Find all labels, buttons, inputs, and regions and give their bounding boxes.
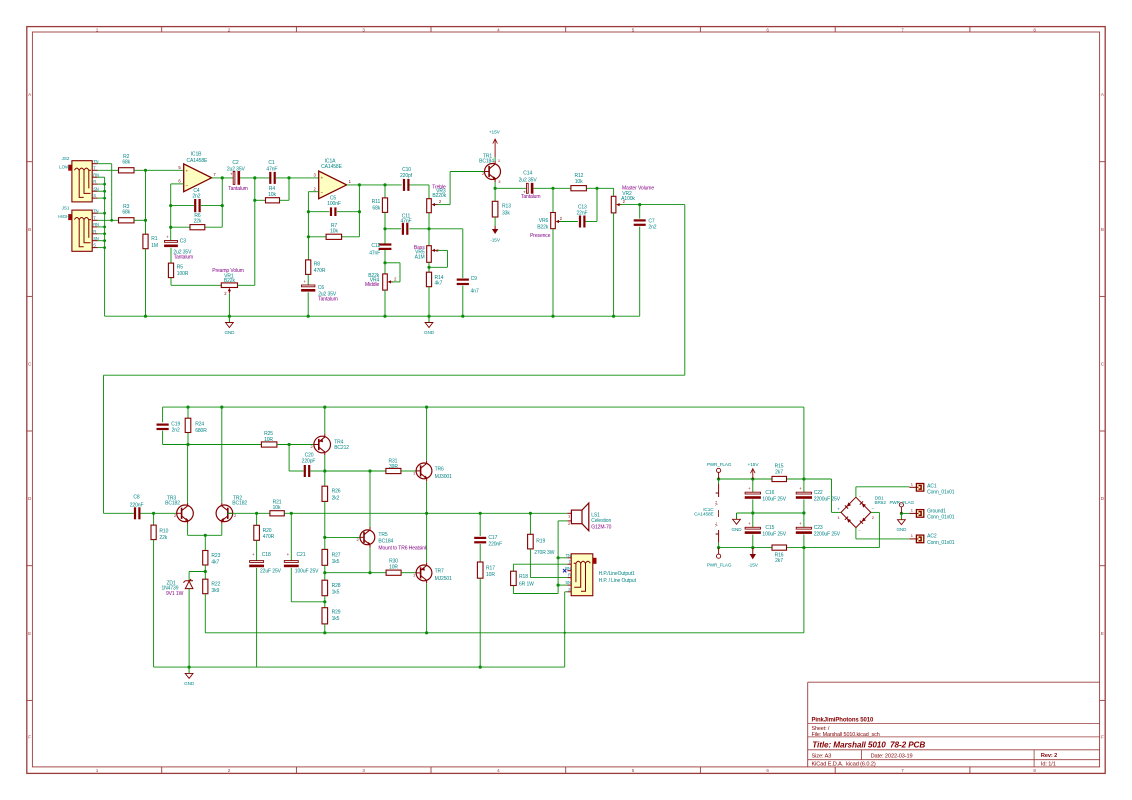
wire IC1A inverting vertical: [307, 192, 309, 261]
svg-text:Middle: Middle: [365, 282, 379, 288]
wire TR1 emitter to C14: [495, 187, 526, 189]
svg-text:+15V: +15V: [489, 130, 501, 136]
capacitor C5: [330, 207, 332, 216]
wire R30 row: [325, 572, 386, 574]
node SN branch: [557, 584, 560, 587]
svg-text:Ground1: Ground1: [927, 508, 946, 514]
input jack JS2: [72, 161, 92, 202]
svg-text:Conn_01x01: Conn_01x01: [927, 540, 955, 546]
resistor R24: [187, 407, 189, 418]
node IC1A output: [358, 183, 361, 186]
node ZD1 row: [204, 570, 207, 573]
svg-text:R24: R24: [195, 421, 204, 427]
svg-text:+: +: [748, 486, 751, 491]
ground symbol under VR1: [228, 316, 230, 322]
svg-text:CA1458E: CA1458E: [694, 511, 713, 516]
svg-text:1k5: 1k5: [332, 559, 340, 565]
border column ticks and numbers: [161, 27, 163, 32]
svg-text:C17: C17: [488, 535, 497, 541]
svg-text:TR6: TR6: [435, 466, 444, 472]
wire VR1 wiper to ground rail: [228, 294, 230, 316]
wire R27 to R30 row: [324, 565, 326, 580]
input jack JS1: [72, 210, 92, 251]
wire IC1B output: [212, 177, 233, 179]
wire C8 to TR3: [141, 512, 177, 514]
wire R30 to TR7 base: [401, 572, 416, 574]
capacitor C22: [803, 479, 805, 492]
svg-text:100uF 25V: 100uF 25V: [295, 568, 319, 574]
svg-text:39R: 39R: [389, 464, 398, 470]
resistor R4 with connectors: [254, 178, 256, 200]
wire C4 row: [171, 205, 194, 207]
wire TR2 collector to rail: [221, 407, 223, 503]
svg-text:TN: TN: [93, 159, 98, 164]
svg-text:+: +: [320, 177, 323, 182]
node PWR_FLAG top: [717, 477, 720, 480]
wire C1 to IC1A pin3: [276, 177, 319, 179]
svg-text:GND: GND: [224, 330, 235, 335]
node TR7 negative rail: [425, 631, 428, 634]
wire bridge AC bottom to AC2: [855, 528, 857, 539]
border row ticks and letters: [27, 161, 33, 163]
svg-text:Presence: Presence: [530, 233, 551, 239]
wire TN row: [558, 557, 567, 559]
capacitor C23: [803, 513, 805, 528]
op-amp IC1B: [184, 164, 212, 192]
svg-text:KiCad E.D.A. kicad (6.0.2): KiCad E.D.A. kicad (6.0.2): [812, 761, 876, 767]
title block outline: [808, 682, 1100, 767]
resistor R11: [384, 185, 386, 198]
svg-text:10k: 10k: [330, 228, 338, 234]
svg-text:100nF: 100nF: [327, 201, 341, 207]
node R19 top: [529, 512, 532, 515]
svg-text:22k: 22k: [194, 219, 202, 225]
node JS1 T junction: [110, 219, 113, 222]
svg-text:E: E: [28, 631, 31, 636]
wire TR5 base: [325, 536, 360, 538]
wire C11 row to C9: [429, 228, 463, 230]
node R6 left: [169, 226, 172, 229]
node TR6 rail: [425, 406, 428, 409]
wire TR4 bottom: [324, 455, 326, 471]
svg-text:+: +: [185, 170, 188, 175]
node R23 top: [204, 534, 207, 537]
svg-text:R: R: [568, 573, 571, 578]
svg-text:−: −: [185, 184, 188, 189]
svg-text:PWR_FLAG: PWR_FLAG: [889, 500, 914, 505]
node VR6 ground: [551, 315, 554, 318]
capacitor C20: [304, 465, 306, 477]
svg-text:BC212: BC212: [334, 445, 349, 451]
svg-text:JS2: JS2: [62, 156, 70, 161]
resistor R29: [322, 608, 328, 624]
svg-text:470R: 470R: [263, 534, 275, 540]
wire R2-R3 tie vertical: [145, 170, 147, 220]
svg-text:270R 3W: 270R 3W: [534, 550, 555, 556]
svg-text:68k: 68k: [122, 160, 130, 166]
node VR4 top loop junction: [383, 261, 386, 264]
svg-text:−: −: [872, 506, 875, 511]
svg-text:2n2: 2n2: [192, 194, 200, 200]
connector AC2 Conn_01x01: [916, 535, 923, 543]
wire C11 row: [385, 228, 401, 230]
capacitor C12: [384, 229, 386, 244]
wire TR3 collector row to R25: [163, 444, 262, 446]
wire TR3 emitter: [187, 524, 189, 536]
svg-text:B22k: B22k: [537, 224, 549, 230]
resistor R25: [261, 442, 277, 447]
svg-text:GND: GND: [896, 527, 907, 532]
svg-text:+: +: [799, 521, 802, 526]
wire negative rail riser: [803, 548, 805, 633]
svg-text:File: Marshall 5010.kicad_sch: File: Marshall 5010.kicad_sch: [812, 732, 880, 738]
svg-text:TN: TN: [93, 208, 98, 213]
node PWR_FLAG bottom: [717, 546, 720, 549]
svg-text:C23: C23: [814, 525, 823, 531]
PWR_FLAG bottom symbol: [718, 548, 720, 555]
wire R22 to negative rail: [204, 594, 206, 633]
wire VR6 bottom to rail: [552, 229, 554, 317]
svg-text:+: +: [837, 506, 840, 511]
svg-text:2k2: 2k2: [332, 496, 340, 502]
svg-text:1: 1: [96, 768, 99, 773]
wire R31 to TR6 base: [401, 470, 416, 472]
svg-text:10k: 10k: [273, 505, 281, 511]
transistor TR1 BC184: [485, 164, 501, 180]
svg-text:AC2: AC2: [927, 534, 937, 540]
speaker LS1 Celestion: [571, 510, 582, 524]
node C21 top: [290, 512, 293, 515]
power symbol +15V at TR1: [494, 157, 496, 161]
svg-text:47nF: 47nF: [401, 219, 412, 225]
svg-text:8: 8: [1033, 768, 1036, 773]
wire C13 right riser: [586, 221, 598, 223]
svg-text:C9: C9: [471, 276, 478, 282]
svg-text:220nF: 220nF: [130, 502, 144, 508]
connector AC1 Conn_01x01: [916, 484, 923, 492]
node C11 left: [383, 227, 386, 230]
svg-text:R1: R1: [151, 236, 158, 242]
svg-text:C21: C21: [297, 552, 306, 558]
ground rail power amp: [154, 666, 565, 668]
svg-text:BR62: BR62: [875, 500, 887, 505]
svg-text:F: F: [1101, 735, 1104, 740]
svg-text:VR6: VR6: [539, 218, 549, 224]
node VR5 bottom junction: [427, 266, 430, 269]
svg-text:CA1458E: CA1458E: [321, 164, 342, 170]
power symbol -15V under R13: [494, 217, 496, 226]
wire R12 to VR2: [586, 187, 613, 189]
wire VR4 wiper loop: [392, 281, 400, 283]
negative rail: [205, 632, 804, 634]
op-amp IC1C power unit: [718, 479, 720, 484]
svg-text:F: F: [28, 735, 31, 740]
resistor R28: [322, 580, 328, 596]
svg-text:+15V: +15V: [748, 462, 760, 468]
node R4 left to VR1 riser: [253, 199, 256, 202]
svg-text:Sheet: /: Sheet: /: [812, 726, 830, 732]
node C4 right: [221, 204, 224, 207]
capacitor C15: [752, 513, 754, 528]
node C5 right: [358, 210, 361, 213]
wire R14 to ground rail: [428, 287, 430, 317]
capacitor C21: [290, 513, 292, 561]
svg-text:10R: 10R: [486, 572, 495, 578]
capacitor C4: [194, 199, 196, 212]
wire C12 to VR4: [384, 250, 386, 274]
node tone stack mid junction: [427, 227, 430, 230]
wire R23 to R22: [204, 565, 206, 579]
wire R5 to VR1: [170, 278, 172, 286]
node R1 top junction: [144, 219, 147, 222]
wire VR3 wiper to TR1 base: [438, 204, 451, 206]
wire C14 to R12: [533, 187, 571, 189]
zener diode ZD1 1N4739: [188, 572, 190, 581]
svg-text:SN: SN: [93, 236, 99, 241]
node R15 right: [802, 477, 805, 480]
node VR1 wiper ground: [228, 315, 231, 318]
wire bridge AC top to AC1: [855, 487, 857, 497]
wire emitter row: [188, 534, 222, 536]
wire C3 to R5: [170, 248, 172, 263]
svg-text:BC184: BC184: [378, 539, 393, 545]
svg-text:CA1458E: CA1458E: [187, 158, 208, 164]
wire C18 to ground rail: [256, 568, 258, 667]
svg-text:680R: 680R: [195, 428, 207, 434]
capacitor C11: [402, 223, 404, 235]
node TR1 emitter: [494, 187, 497, 190]
capacitor C6 tantalum: [302, 285, 315, 287]
wire TR5 emitter: [369, 548, 371, 573]
node C2-R4 junction: [253, 176, 256, 179]
svg-text:10R: 10R: [389, 565, 398, 571]
wire TR3 collector: [187, 445, 189, 503]
svg-text:LOW: LOW: [59, 165, 70, 170]
svg-text:C1: C1: [268, 160, 275, 166]
wire TR2 base row: [227, 512, 270, 514]
wire TR2 emitter: [221, 524, 223, 536]
wire master volume feed to power amp: [684, 205, 686, 376]
resistor R15: [772, 476, 787, 481]
svg-text:RN: RN: [93, 172, 99, 177]
wire R2 to IC1B pin5: [134, 169, 184, 171]
node C16 bottom 0V: [751, 511, 754, 514]
node C13 riser top: [595, 187, 598, 190]
potentiometer VR1 Preamp Volume: [221, 283, 237, 288]
svg-text:GND: GND: [184, 681, 195, 686]
svg-text:6R 1W: 6R 1W: [519, 581, 534, 587]
svg-text:2k7: 2k7: [775, 558, 783, 564]
PWR_FLAG at Ground1: [900, 507, 902, 514]
wire R8 to C6: [307, 275, 309, 286]
svg-text:Tantalum: Tantalum: [521, 194, 541, 200]
svg-text:C15: C15: [765, 525, 774, 531]
potentiometer VR6 Presence: [552, 188, 554, 213]
svg-text:2: 2: [228, 768, 231, 773]
supply +15 row: [719, 478, 772, 480]
wire JS2 T to R2: [98, 169, 119, 171]
svg-text:C6: C6: [318, 285, 325, 291]
transistor TR2 BC182 mirrored: [216, 505, 233, 522]
svg-text:TN: TN: [566, 553, 571, 558]
node TR4 rail: [323, 406, 326, 409]
svg-text:R13: R13: [502, 204, 511, 210]
svg-text:HIGH: HIGH: [58, 214, 69, 219]
resistor R20: [256, 513, 258, 525]
node TN branch: [557, 556, 560, 559]
wire VR2 bottom to rail: [613, 213, 615, 316]
resistor R8: [306, 260, 311, 275]
svg-text:2200uF 25V: 2200uF 25V: [814, 532, 841, 538]
node Ground1 flag: [900, 512, 903, 515]
wire JS2 ground bus vertical: [104, 177, 106, 316]
svg-text:5: 5: [632, 768, 635, 773]
svg-text:220pf: 220pf: [400, 173, 413, 179]
svg-text:PinkJimiPhotons 5010: PinkJimiPhotons 5010: [812, 717, 874, 723]
wire IC1B output to feedback vertical right: [221, 178, 223, 227]
node R20 top: [255, 512, 258, 515]
wire VR1 right riser: [254, 200, 256, 285]
wire IC1B pin6: [171, 183, 184, 185]
node VR4 ground: [383, 315, 386, 318]
svg-text:B22k: B22k: [224, 278, 236, 284]
svg-text:68k: 68k: [122, 210, 130, 216]
node R16 right: [802, 546, 805, 549]
svg-text:C2: C2: [232, 160, 239, 166]
resistor R17: [477, 562, 483, 578]
svg-text:C3: C3: [180, 238, 187, 244]
wire C21 bottom to R28 node: [290, 568, 292, 602]
svg-text:−: −: [320, 191, 323, 196]
svg-text:4: 4: [497, 768, 500, 773]
svg-text:2u2 35V: 2u2 35V: [227, 167, 246, 173]
resistor R18: [512, 564, 514, 571]
resistor R31: [386, 468, 401, 473]
svg-text:10R: 10R: [264, 437, 273, 443]
svg-text:68k: 68k: [372, 206, 380, 212]
node +15V arrow: [751, 477, 754, 480]
svg-text:E: E: [1101, 631, 1104, 636]
wire R29 to negative rail: [324, 624, 326, 633]
svg-text:S: S: [568, 587, 571, 592]
svg-text:+: +: [799, 486, 802, 491]
potentiometer VR2 Master Volume: [613, 188, 615, 196]
svg-text:-15V: -15V: [748, 562, 759, 568]
svg-text:B220k: B220k: [432, 193, 446, 199]
svg-text:1k5: 1k5: [332, 616, 340, 622]
resistor R16: [772, 545, 787, 550]
op-amp IC1A: [319, 171, 347, 199]
svg-text:B: B: [28, 227, 31, 232]
node C17 top: [479, 512, 482, 515]
svg-text:R17: R17: [486, 565, 495, 571]
resistor R12: [571, 186, 587, 191]
svg-text:JS1: JS1: [62, 205, 70, 210]
capacitor C7: [639, 205, 641, 219]
wire TR6 emitter to output row: [426, 482, 428, 514]
node R29 negative rail: [323, 631, 326, 634]
svg-text:C10: C10: [402, 167, 411, 173]
wire C10 to VR3: [410, 184, 430, 186]
svg-text:IC1B: IC1B: [191, 151, 202, 157]
wire R7 row: [308, 236, 326, 238]
resistor R14: [426, 272, 431, 287]
svg-text:H.P./LineOutput1: H.P./LineOutput1: [599, 571, 635, 577]
potentiometer VR5 Bass: [428, 229, 430, 246]
svg-text:MJ3001: MJ3001: [435, 474, 453, 480]
resistor R7: [326, 234, 342, 239]
svg-text:MJ2501: MJ2501: [435, 576, 453, 582]
capacitor C13: [579, 216, 581, 228]
capacitor C18: [250, 561, 264, 563]
wire C2 to C1: [240, 177, 269, 179]
node C15 bottom: [751, 546, 754, 549]
wire R26 to TR5 base node: [324, 501, 326, 549]
wire C20 right: [310, 470, 324, 472]
capacitor C9: [462, 229, 464, 278]
node ZD1 ground: [188, 666, 191, 669]
svg-text:B: B: [1101, 227, 1104, 232]
svg-text:Conn_01x01: Conn_01x01: [927, 515, 955, 521]
svg-text:G12M-70: G12M-70: [591, 524, 611, 530]
ground symbol at Ground1: [900, 513, 902, 519]
svg-text:1M: 1M: [151, 243, 158, 249]
wire VR5 wiper loop: [438, 249, 448, 251]
ground rail top section: [105, 315, 640, 317]
svg-text:1k5: 1k5: [332, 590, 340, 596]
node R2 output junction: [144, 169, 147, 172]
svg-text:C16: C16: [765, 490, 774, 496]
resistor R3: [119, 218, 135, 223]
svg-text:RN: RN: [93, 222, 99, 227]
node C6 ground: [307, 315, 310, 318]
node C7 top: [638, 203, 641, 206]
wire output row to speaker: [427, 512, 568, 514]
capacitor C10: [403, 179, 405, 191]
svg-text:Rev: 2: Rev: 2: [1041, 753, 1057, 759]
node S crossing negative rail: [564, 632, 566, 634]
wire VR1 right to riser: [238, 284, 255, 286]
resistor R27: [322, 549, 328, 565]
svg-text:-15V: -15V: [490, 238, 501, 244]
svg-text:R19: R19: [536, 539, 545, 545]
capacitor C8: [104, 512, 134, 514]
wire IC1B feedback vertical left: [170, 184, 172, 241]
svg-text:+: +: [287, 552, 290, 557]
svg-text:2k7: 2k7: [775, 469, 783, 475]
wire TR7 collector to negative rail: [426, 584, 428, 633]
wire speaker pin2 down: [558, 520, 567, 522]
svg-text:2n2: 2n2: [648, 224, 656, 230]
node R24 rail: [186, 406, 189, 409]
svg-text:AC1: AC1: [927, 483, 937, 489]
wire R20 to C18: [256, 540, 258, 561]
svg-text:+: +: [748, 521, 751, 526]
svg-text:H.P. / Line Output: H.P. / Line Output: [599, 578, 637, 584]
svg-text:SN: SN: [565, 580, 571, 585]
svg-text:8: 8: [1033, 27, 1036, 32]
node R7 left: [307, 235, 310, 238]
resistor R5: [168, 263, 173, 278]
node R14 ground: [427, 315, 430, 318]
wire TR6 collector to rail: [426, 407, 428, 460]
resistor R1: [145, 220, 147, 234]
svg-text:R27: R27: [332, 552, 341, 558]
output jack H.P./LineOutput1: [571, 554, 593, 596]
svg-text:Conn_01x01: Conn_01x01: [927, 490, 955, 496]
transistor TR6 MJ3001: [416, 463, 432, 479]
svg-text:22uF 25V: 22uF 25V: [260, 568, 282, 574]
